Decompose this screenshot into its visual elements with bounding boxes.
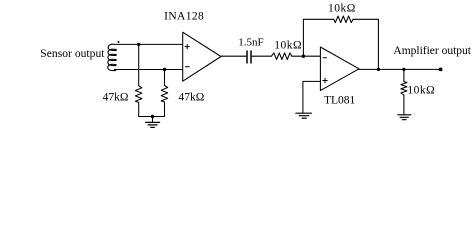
wire: stem to left ground xyxy=(152,117,154,123)
resistor R3 10k (horizontal series) xyxy=(271,53,291,60)
wire: U2 output run xyxy=(359,68,441,70)
svg-text:47kΩ: 47kΩ xyxy=(179,92,205,104)
wire: U1 output to capacitor xyxy=(221,55,246,57)
svg-text:TL081: TL081 xyxy=(324,94,356,106)
wire: load tap down to R5 xyxy=(403,69,405,81)
wire: R4 to output node xyxy=(353,19,378,69)
wire: feedback left vertical and top run to R4 xyxy=(303,19,333,56)
U1 + input sign xyxy=(185,45,189,49)
node junction on ground bus xyxy=(151,115,154,118)
wire: TL081 + input to ground xyxy=(303,81,321,113)
op-amp U1 INA128 triangle xyxy=(183,32,221,81)
wire: R3 to TL081 - input xyxy=(292,55,321,57)
node junction load tap xyxy=(402,68,405,71)
resistor R4 10k (feedback) xyxy=(334,16,353,23)
op-amp U2 TL081 triangle xyxy=(320,47,359,91)
node junction on bottom wire xyxy=(163,68,166,71)
terminal dot output xyxy=(439,68,443,72)
wire: vertical drop from top-wire junction to R1 xyxy=(138,44,140,85)
polarity dot of L1 xyxy=(118,41,120,43)
wire: capacitor to R3 xyxy=(252,55,272,57)
svg-text:Amplifier output: Amplifier output xyxy=(393,45,471,57)
node junction on top wire xyxy=(137,43,140,46)
resistor R2 47k (vertical) xyxy=(161,86,168,117)
ground symbol right xyxy=(398,115,411,120)
svg-text:10kΩ: 10kΩ xyxy=(274,39,302,51)
svg-text:1.5nF: 1.5nF xyxy=(238,36,263,48)
node junction feedback tap xyxy=(302,55,305,58)
resistor R1 47k (vertical) xyxy=(135,86,142,117)
node junction feedback return xyxy=(377,68,380,71)
resistor R5 10k (load, vertical) xyxy=(401,82,407,96)
svg-text:10kΩ: 10kΩ xyxy=(407,84,435,96)
U2 - input sign xyxy=(323,57,327,59)
wire: coil top to INA128 + input xyxy=(115,43,183,45)
capacitor C1 plates xyxy=(247,51,251,63)
svg-text:Sensor output: Sensor output xyxy=(40,48,105,60)
wire: ground bus joining R1 and R2 bottoms xyxy=(139,116,165,118)
svg-text:INA128: INA128 xyxy=(164,11,204,23)
U2 + input sign xyxy=(323,78,328,82)
svg-text:47kΩ: 47kΩ xyxy=(103,92,129,104)
ground symbol at TL081 + input xyxy=(296,113,312,118)
svg-text:10kΩ: 10kΩ xyxy=(328,2,356,14)
ground symbol left xyxy=(146,122,160,127)
inductor L1 sensor coil xyxy=(108,44,117,70)
wire: R5 to ground xyxy=(403,95,405,115)
U1 - input sign xyxy=(185,66,189,68)
wire: vertical drop from bottom-wire junction to R2 xyxy=(164,70,166,86)
wire: coil bottom to INA128 - input xyxy=(114,69,182,71)
